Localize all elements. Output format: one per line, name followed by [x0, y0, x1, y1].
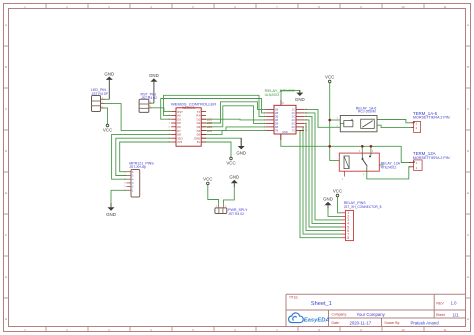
svg-text:JST-XH-6p: JST-XH-6p [129, 165, 146, 169]
svg-text:2C: 2C [292, 111, 295, 115]
svg-text:3B: 3B [275, 115, 278, 119]
svg-text:MORSETTIERA 2 PIN: MORSETTIERA 2 PIN [413, 156, 450, 160]
svg-text:1/1: 1/1 [453, 312, 460, 317]
svg-text:Sheet_1: Sheet_1 [311, 301, 332, 307]
svg-text:Sheet:: Sheet: [436, 313, 446, 317]
svg-text:GND: GND [106, 212, 116, 217]
svg-text:6B: 6B [275, 125, 278, 129]
svg-text:1C: 1C [292, 108, 295, 112]
svg-text:VCC: VCC [103, 128, 112, 133]
svg-text:RTE24012: RTE24012 [381, 166, 397, 170]
svg-text:Date:: Date: [332, 321, 340, 325]
svg-text:B: B [5, 65, 7, 69]
svg-text:4C: 4C [292, 118, 295, 122]
svg-text:V: V [282, 101, 284, 105]
svg-text:GND: GND [295, 97, 305, 102]
svg-text:1.0: 1.0 [451, 301, 457, 306]
svg-text:3C: 3C [292, 115, 295, 119]
svg-text:8: 8 [347, 236, 349, 240]
svg-text:11: 11 [444, 328, 447, 332]
svg-text:VCC: VCC [226, 161, 235, 166]
svg-text:7C: 7C [292, 129, 295, 133]
svg-text:Your Company: Your Company [357, 312, 386, 317]
svg-text:10: 10 [402, 328, 405, 332]
svg-text:C: C [5, 107, 7, 111]
svg-text:E: E [467, 191, 469, 195]
svg-text:GND: GND [323, 197, 333, 202]
svg-text:B: B [467, 65, 469, 69]
svg-text:GND: GND [229, 175, 239, 180]
svg-text:MORSETTIERA 2 PIN: MORSETTIERA 2 PIN [413, 116, 450, 120]
svg-text:EasyEDA: EasyEDA [304, 318, 330, 324]
svg-text:C: C [467, 107, 469, 111]
svg-text:ULN2003: ULN2003 [265, 93, 279, 97]
svg-text:A: A [5, 23, 7, 27]
svg-text:G: G [5, 275, 7, 279]
svg-text:GND: GND [104, 71, 114, 76]
svg-text:GND: GND [236, 151, 246, 156]
svg-text:Company:: Company: [332, 313, 348, 317]
svg-text:3V3: 3V3 [177, 140, 182, 144]
svg-text:RCJ-1050M: RCJ-1050M [358, 110, 376, 114]
svg-text:1B: 1B [275, 108, 278, 112]
svg-text:VCC: VCC [203, 176, 212, 181]
svg-text:11: 11 [444, 5, 447, 9]
svg-text:4B: 4B [275, 118, 278, 122]
svg-text:H: H [5, 317, 7, 321]
svg-text:E: E [5, 191, 7, 195]
svg-text:TITLE:: TITLE: [289, 296, 299, 300]
svg-text:Prateek Anand: Prateek Anand [411, 320, 440, 325]
svg-text:2020-11-17: 2020-11-17 [350, 320, 372, 325]
svg-text:VCC: VCC [333, 189, 342, 194]
svg-text:LD4: LD4 [207, 129, 213, 133]
svg-text:5V: 5V [197, 140, 201, 144]
svg-text:7B: 7B [275, 129, 278, 133]
svg-text:5C: 5C [292, 122, 295, 126]
svg-text:JST R4 02: JST R4 02 [228, 212, 244, 216]
svg-text:H: H [467, 317, 469, 321]
svg-text:A: A [467, 23, 469, 27]
svg-text:VCC: VCC [325, 75, 334, 80]
svg-text:GND: GND [149, 73, 159, 78]
svg-text:2B: 2B [275, 111, 278, 115]
svg-text:G: G [467, 275, 469, 279]
svg-text:Drawn By:: Drawn By: [385, 321, 401, 325]
svg-text:5B: 5B [275, 122, 278, 126]
svg-text:D: D [5, 149, 7, 153]
svg-text:JST R4 3P: JST R4 3P [92, 92, 109, 96]
svg-text:10: 10 [402, 5, 405, 9]
svg-text:6C: 6C [292, 125, 295, 129]
svg-text:GND: GND [282, 130, 288, 134]
svg-text:WEMOS: WEMOS [182, 106, 194, 110]
svg-text:JST_XH_CONNECTOR_8: JST_XH_CONNECTOR_8 [344, 205, 382, 209]
svg-text:JST R4 02: JST R4 02 [141, 96, 157, 100]
svg-text:REV: REV [436, 301, 444, 305]
svg-text:D: D [467, 149, 469, 153]
